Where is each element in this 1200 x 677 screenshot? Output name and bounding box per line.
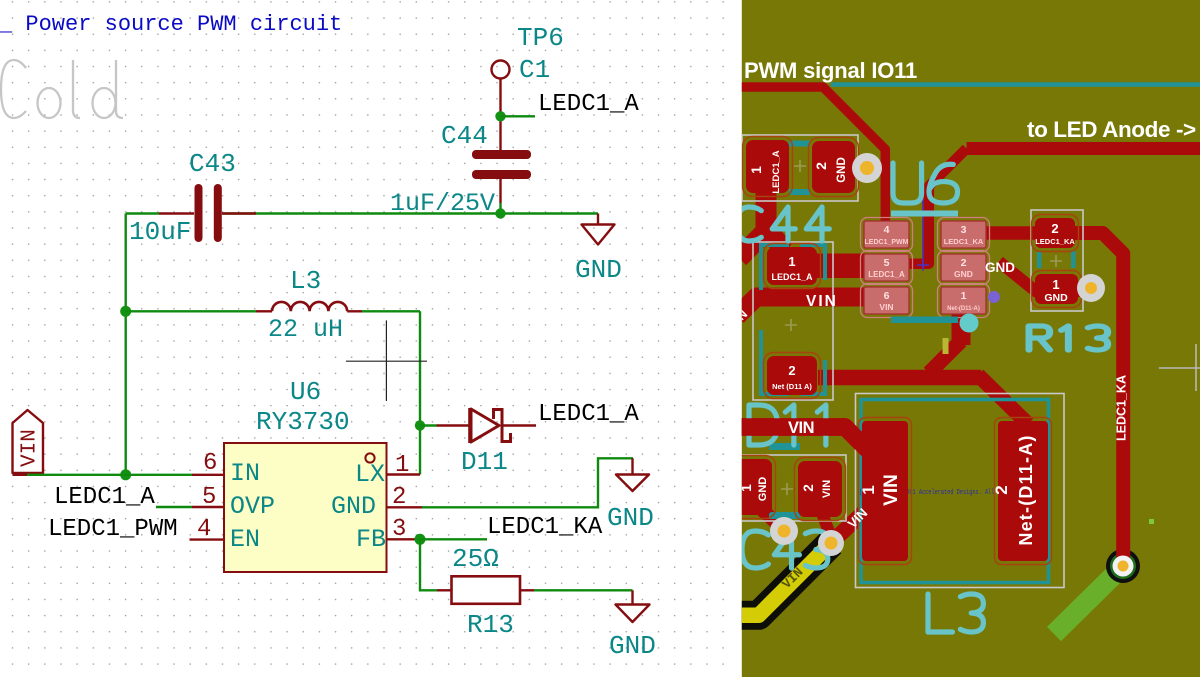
pcb trace GND U6 to R13 — [999, 262, 1038, 294]
pcb pad C43-2 VIN — [795, 458, 846, 521]
wire net LEDC1_A top rail — [126, 208, 598, 218]
svg-text:10uF: 10uF — [129, 217, 191, 247]
svg-text:GND: GND — [607, 503, 654, 533]
pin 5 OVP — [156, 484, 275, 521]
svg-text:2: 2 — [801, 484, 816, 492]
svg-text:IN: IN — [230, 459, 260, 488]
svg-text:R13: R13 — [467, 610, 514, 640]
pcb trace VIN to U6 pad6 — [737, 297, 866, 316]
svg-text:VIN: VIN — [881, 474, 902, 506]
pcb trace C43 pad1 to via — [757, 505, 784, 530]
pcb background copper zone — [742, 0, 1200, 677]
svg-text:Net-(D11-A): Net-(D11-A) — [1016, 434, 1036, 545]
svg-text:1: 1 — [1052, 277, 1059, 292]
pcb ref text C44 — [737, 207, 829, 241]
svg-text:GND: GND — [331, 492, 376, 521]
IC U6 RY3730 body — [224, 377, 387, 572]
pcb ref L3 — [0, 0, 1, 1]
pcb trace to LED anode — [967, 142, 1200, 155]
label LEDC1_A (diode) — [538, 401, 639, 428]
svg-text:LEDC1_A: LEDC1_A — [538, 91, 639, 118]
svg-text:D11: D11 — [461, 447, 508, 477]
pcb pad U6-2 GND — [938, 251, 990, 285]
pcb pad U6-4 LEDC1_PWM — [861, 218, 913, 252]
svg-text:FB: FB — [356, 525, 386, 554]
label LEDC1_PWM — [48, 516, 178, 543]
pcb pad C43-1 GND — [732, 456, 776, 519]
label LEDC1_A (pin5) — [54, 484, 155, 511]
svg-text:VIN: VIN — [879, 302, 893, 312]
capacitor C43 — [129, 149, 256, 247]
pcb trace VIN band to L3 — [737, 427, 869, 451]
svg-text:1: 1 — [859, 485, 878, 494]
svg-text:Net (D11 A): Net (D11 A) — [772, 382, 812, 391]
pcb footprint C43 — [737, 443, 846, 521]
wire R13 to ground — [534, 589, 633, 591]
svg-text:1: 1 — [961, 290, 967, 302]
pcb trace B.Cu (green) to via — [1054, 549, 1140, 634]
svg-text:LEDC1_KA: LEDC1_KA — [944, 237, 984, 246]
inductor L3 — [126, 266, 362, 344]
pcb trace B.Cu VIN (yellow) — [735, 543, 831, 615]
svg-text:GND: GND — [575, 255, 622, 285]
pcb pad R13-1 GND — [1032, 271, 1082, 308]
svg-text:5: 5 — [884, 257, 890, 269]
cursor crosshair — [346, 320, 427, 401]
svg-text:5: 5 — [202, 484, 216, 511]
svg-text:LEDC1_A: LEDC1_A — [771, 272, 813, 282]
pcb ref text C43 — [742, 531, 828, 568]
pin 2 GND — [331, 484, 422, 521]
svg-text:LEDC1_PWM: LEDC1_PWM — [865, 239, 909, 246]
wire net LX vertical — [362, 311, 420, 474]
pcb footprint R13 — [1031, 210, 1083, 311]
svg-text:LEDC1_A: LEDC1_A — [771, 150, 782, 193]
via (C43 VIN) — [818, 530, 844, 556]
svg-text:PWM signal IO11: PWM signal IO11 — [744, 58, 917, 83]
power symbol VIN — [13, 410, 44, 475]
ground (R13) — [609, 590, 656, 661]
svg-text:GND: GND — [1044, 292, 1068, 304]
via (near C44) — [852, 153, 882, 183]
svg-text:LEDC1_PWM: LEDC1_PWM — [48, 516, 178, 543]
svg-text:C43: C43 — [189, 149, 236, 179]
svg-text:LEDC1_KA: LEDC1_KA — [487, 514, 603, 541]
svg-text:LX: LX — [355, 460, 385, 489]
pcb footprint C44 — [742, 135, 858, 201]
pcb pad D11-1 LEDC1_A — [764, 244, 821, 289]
pane divider — [738, 0, 742, 677]
svg-text:LEDC1_KA: LEDC1_KA — [1115, 375, 1129, 441]
svg-text:GND: GND — [985, 260, 1015, 275]
pcb footprint L3 — [856, 394, 1065, 588]
pcb pad U6-1 Net-D11-A — [938, 284, 990, 318]
pcb line net tie (teal) — [831, 82, 1200, 87]
svg-text:GND: GND — [836, 157, 848, 183]
svg-text:C1: C1 — [519, 55, 550, 85]
pin 3 FB — [356, 516, 420, 554]
svg-text:2: 2 — [788, 363, 795, 378]
pcb footprint D11 — [753, 242, 833, 400]
pcb pad L3-2 Net-(D11-A) — [992, 418, 1052, 565]
svg-text:OVP: OVP — [230, 492, 275, 521]
pcb trace C43 pad2 to via — [820, 508, 831, 537]
svg-text:LEDC1_KA: LEDC1_KA — [1035, 237, 1075, 246]
pcb trace PWM signal — [738, 87, 885, 235]
svg-text:6: 6 — [884, 290, 890, 302]
pcb drawing marks near U6 — [891, 183, 1000, 354]
svg-text:LEDC1_A: LEDC1_A — [868, 270, 905, 279]
svg-text:4: 4 — [884, 224, 890, 236]
pin 6 IN — [192, 450, 260, 488]
svg-text:1: 1 — [395, 452, 409, 479]
pcb ref text D11 — [749, 405, 826, 445]
pcb ref text L3 — [928, 594, 983, 632]
pin 4 EN — [190, 516, 261, 554]
node LEDC1_A (top) — [495, 91, 639, 122]
via (C43 GND) — [770, 517, 798, 545]
pcb ref D11 — [0, 0, 1, 1]
via (LEDC1_KA bottom) — [1113, 556, 1134, 577]
svg-text:TP6: TP6 — [517, 23, 564, 53]
pcb cursor crosshair — [1159, 344, 1200, 391]
svg-text:C44: C44 — [441, 121, 488, 151]
pcb trace net D11-A — [818, 303, 1028, 424]
pcb ref text R13 — [1029, 326, 1108, 350]
pcb pad U6-6 VIN — [861, 284, 913, 318]
svg-text:VIN: VIN — [821, 480, 833, 498]
watermark text Cold — [1, 60, 123, 118]
pcb trace VIN band top coat — [737, 419, 869, 451]
pcb trace R13 pad1 to via — [1070, 281, 1086, 297]
wire VIN to pin 6 — [27, 474, 192, 476]
svg-text:25Ω: 25Ω — [452, 544, 499, 574]
ground (pin 2) — [607, 458, 654, 533]
svg-text:_ Power source PWM circuit: _ Power source PWM circuit — [0, 12, 342, 37]
via (R13 GND) — [1077, 274, 1105, 302]
pcb trace C44 to D11/left — [739, 185, 786, 258]
node FB / label LEDC1_KA — [415, 514, 603, 545]
svg-text:LEDC1_A: LEDC1_A — [538, 401, 639, 428]
svg-text:3: 3 — [392, 516, 406, 543]
pcb trace LEDC1_A D11 to U6 pad5 — [812, 254, 866, 279]
pcb pad C44-1 LEDC1_A — [743, 137, 793, 197]
pcb trace LEDC1_KA vertical — [1072, 233, 1123, 560]
svg-text:2: 2 — [961, 257, 967, 269]
pcb pad U6-5 LEDC1_A — [861, 251, 913, 285]
pcb ref text U6 — [891, 163, 958, 217]
svg-text:1: 1 — [788, 254, 795, 269]
capacitor C44 — [390, 121, 531, 218]
pcb mark small green — [1149, 519, 1154, 524]
svg-text:VIN: VIN — [19, 429, 42, 467]
svg-text:L3: L3 — [290, 266, 321, 296]
svg-text:6: 6 — [203, 450, 217, 477]
svg-text:to LED Anode ->: to LED Anode -> — [1027, 117, 1196, 142]
svg-text:VIN: VIN — [788, 419, 814, 437]
svg-text:3: 3 — [961, 224, 967, 236]
sheet title text — [0, 12, 342, 37]
pcb ref R13 — [0, 0, 1, 1]
pcb pad D11-2 Net-(D11-A) — [764, 353, 821, 399]
svg-text:LEDC1_A: LEDC1_A — [54, 484, 155, 511]
svg-text:2: 2 — [813, 162, 829, 170]
pcb pad L3-1 VIN — [859, 418, 912, 565]
svg-text:GND: GND — [954, 269, 973, 279]
svg-text:U6: U6 — [290, 377, 321, 407]
svg-text:2: 2 — [392, 484, 406, 511]
svg-text:1: 1 — [748, 166, 764, 174]
svg-text:2: 2 — [1051, 221, 1058, 236]
pcb pad U6-3 LEDC1_KA — [938, 218, 990, 252]
schematic background — [0, 0, 738, 677]
pcb pad R13-2 LEDC1_KA — [1032, 215, 1079, 252]
svg-text:4: 4 — [197, 516, 211, 543]
test point TP6 — [492, 23, 564, 150]
pcb trace VIN band (over) — [737, 420, 869, 451]
wire VIN left rail — [120, 214, 131, 481]
svg-text:GND: GND — [609, 631, 656, 661]
pcb trace via to L3 pad1 — [833, 510, 866, 541]
pcb trace LEDC1_KA to R13 — [986, 226, 1040, 240]
resistor R13 — [420, 539, 534, 640]
pcb pad C44-2 GND — [809, 138, 859, 197]
svg-text:EN: EN — [230, 525, 260, 554]
diode D11 (schottky) — [415, 408, 536, 477]
pcb ref C43 — [0, 0, 1, 1]
svg-text:VIN: VIN — [806, 293, 838, 310]
ground (top) — [575, 214, 622, 286]
svg-text:2: 2 — [992, 485, 1011, 494]
svg-text:22 uH: 22 uH — [268, 315, 343, 344]
pcb ref C44 — [0, 0, 1, 1]
pin 1 LX — [355, 452, 420, 489]
wire pin2 to ground — [422, 458, 633, 507]
svg-text:RY3730: RY3730 — [256, 407, 350, 437]
svg-text:Net-(D11-A): Net-(D11-A) — [947, 306, 980, 312]
svg-text:GND: GND — [757, 477, 769, 502]
